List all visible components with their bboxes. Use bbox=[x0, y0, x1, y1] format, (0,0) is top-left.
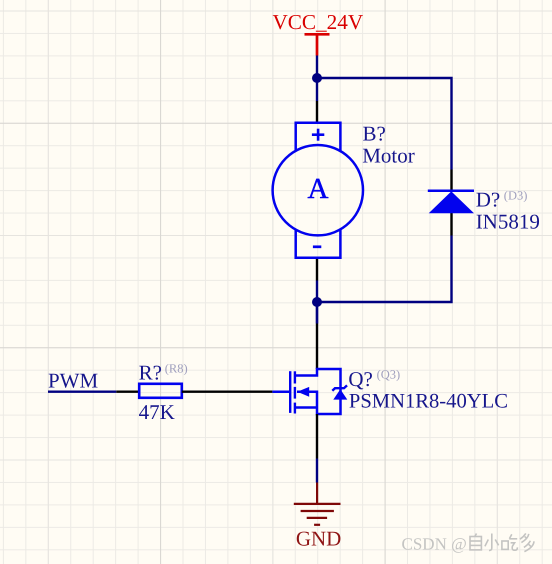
power symbol VCC bar bbox=[305, 34, 330, 55]
mosfet Q1 gate bar bbox=[289, 371, 291, 413]
svg-text:VCC_24V: VCC_24V bbox=[272, 10, 363, 34]
pin motor plus bbox=[316, 101, 318, 123]
diode D1 cathode bar bbox=[428, 189, 474, 192]
mosfet Q1 body diode zigzag bbox=[332, 385, 347, 390]
wire junction A to diode top bbox=[317, 78, 452, 170]
mosfet Q1 drain/source outline bbox=[295, 369, 341, 414]
ground symbol GND bbox=[294, 483, 341, 525]
wire junction B to drain pin bbox=[316, 302, 318, 324]
svg-text:(D3): (D3) bbox=[504, 188, 528, 202]
svg-text:D?: D? bbox=[476, 188, 501, 212]
motor plus sign bbox=[312, 129, 324, 141]
svg-text:(Q3): (Q3) bbox=[377, 367, 401, 381]
svg-text:PWM: PWM bbox=[48, 369, 99, 393]
mosfet Q1 body diode triangle bbox=[333, 389, 347, 399]
watermark chinese glyphs bbox=[470, 533, 534, 551]
wire motor to junction B bbox=[316, 281, 318, 324]
wire PWM to resistor bbox=[48, 391, 116, 393]
mosfet Q1 source arrow bbox=[297, 387, 309, 397]
svg-text:PSMN1R8-40YLC: PSMN1R8-40YLC bbox=[349, 390, 508, 412]
svg-text:CSDN @: CSDN @ bbox=[402, 535, 467, 554]
diode D1 triangle bbox=[429, 191, 474, 213]
svg-text:R?: R? bbox=[139, 360, 162, 384]
pin diode cathode bbox=[450, 170, 452, 193]
wire junction B to diode bottom bbox=[317, 236, 452, 303]
svg-text:(R8): (R8) bbox=[165, 362, 188, 376]
motor minus sign bbox=[313, 245, 321, 248]
pin diode anode bbox=[450, 212, 452, 236]
pin resistor right to gate bbox=[182, 391, 273, 393]
pin motor minus bbox=[316, 259, 318, 281]
svg-text:B?: B? bbox=[363, 121, 386, 145]
svg-text:Q?: Q? bbox=[348, 367, 373, 391]
svg-text:A: A bbox=[308, 173, 329, 205]
junction A dot bbox=[312, 73, 322, 83]
pin resistor left bbox=[116, 391, 139, 393]
mosfet gate lead bbox=[272, 390, 289, 393]
pin mosfet source bbox=[316, 414, 318, 459]
wire source to GND bbox=[316, 459, 318, 483]
mosfet Q1 channel dashes bbox=[294, 371, 296, 413]
pin mosfet drain bbox=[316, 324, 318, 370]
junction B dot bbox=[312, 297, 322, 307]
svg-text:Motor: Motor bbox=[362, 144, 415, 168]
resistor R? body bbox=[139, 384, 182, 398]
wire VCC to junction A bbox=[316, 56, 318, 102]
svg-text:IN5819: IN5819 bbox=[476, 209, 540, 233]
motor B? symbol bbox=[273, 123, 363, 258]
svg-text:GND: GND bbox=[296, 527, 342, 551]
svg-text:47K: 47K bbox=[139, 400, 175, 424]
